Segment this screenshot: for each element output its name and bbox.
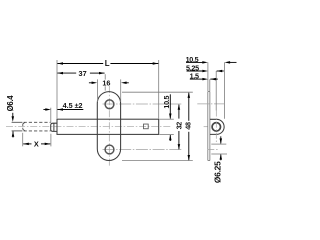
arrow 48 down (188, 155, 191, 161)
side view barrel vertical centerline (215, 111, 217, 144)
svg-text:10.5: 10.5 (162, 96, 171, 109)
side view horizontal centerline stub (204, 126, 208, 128)
dimension Dia6.4 lines (12, 113, 14, 117)
arrow L right (153, 62, 159, 65)
arrow X left (23, 143, 29, 146)
dimension 1.5 underline (190, 78, 203, 80)
svg-text:X: X (34, 140, 39, 149)
arrow L left (57, 62, 63, 65)
arrow dia6.25 down (220, 138, 223, 144)
centerline bottom hole (103, 149, 183, 151)
arrow 16 right (121, 82, 127, 85)
svg-text:Ø6.4: Ø6.4 (6, 95, 15, 112)
body housing front view (57, 119, 159, 134)
extension line barrel axis 5.25 (215, 71, 217, 111)
mounting plate front view (97, 92, 120, 161)
svg-text:48: 48 (184, 122, 193, 130)
extension line 37 right (104, 74, 106, 79)
arrow 37 left (57, 72, 63, 75)
arrow 32 down (178, 144, 181, 150)
side view top hole centerline (197, 103, 224, 105)
arrow 32 up (178, 104, 181, 110)
svg-text:32: 32 (174, 122, 183, 130)
extension line body rear end (158, 60, 160, 118)
extension line side plate right face (209, 79, 211, 91)
svg-text:37: 37 (79, 69, 87, 78)
bottom mounting hole (105, 145, 114, 154)
arrow 10.5mid down (169, 114, 172, 120)
svg-text:1.5: 1.5 (190, 72, 199, 81)
svg-text:Ø6.25: Ø6.25 (213, 161, 223, 183)
arrow 48 up (188, 92, 191, 98)
svg-text:L: L (105, 59, 110, 68)
centerline main axis front view (6, 125, 172, 127)
hidden pin extended bottom edge (12, 130, 23, 132)
hidden pin nose min position (23, 122, 25, 131)
arrow 1.5 left tip (202, 78, 208, 81)
arrow 5.25 left tip (202, 70, 208, 73)
pin tip retracted (51, 123, 57, 131)
arrow 10.5tr right tip (225, 61, 231, 64)
extension line body top right (160, 118, 174, 120)
arrow 10.5tr left tip (202, 61, 208, 64)
extension line body bottom right (160, 133, 174, 135)
arrow 1.5 right tip (210, 78, 216, 81)
arrow 10.5mid up (169, 135, 172, 141)
centerline top hole (103, 103, 183, 105)
extension line plate bottom 48 (122, 160, 193, 162)
extension line plate right (120, 79, 122, 102)
extension line plate left (97, 79, 99, 102)
dimension 4.5 underline and tail (57, 109, 83, 111)
extension line side plate left face (207, 62, 209, 91)
extension line bore top (211, 143, 226, 145)
dimension 10.5 mid vertical (169, 94, 171, 118)
dimension X line (23, 143, 31, 145)
arrow dia6.25 up (220, 154, 223, 160)
arrow 16 left (92, 82, 98, 85)
centerline plate vertical (108, 86, 110, 166)
arrow 37 right (99, 72, 105, 75)
arrow dia6.4 down (12, 116, 15, 122)
arrow X right (45, 143, 51, 146)
extension line pin tip X right (50, 134, 52, 147)
dimension 48 vertical (188, 93, 190, 121)
dimension 37 line (57, 72, 76, 74)
arrow dia6.4 up (12, 131, 15, 137)
side view bottom hole centerline (207, 149, 218, 151)
extension line bore bottom (211, 153, 227, 155)
dimension 10.5 top right underline (186, 61, 203, 63)
dimension 5.25 underline (187, 70, 203, 72)
svg-text:4.5 ±2: 4.5 ±2 (63, 101, 83, 110)
extension line pin nose X (22, 133, 24, 147)
top mounting hole (105, 100, 114, 109)
side view bore circle (212, 123, 220, 131)
dimension L line (57, 63, 103, 65)
extension line barrel end 10.5 (223, 62, 225, 118)
extension line body front face (56, 60, 58, 118)
side view barrel (210, 119, 224, 134)
side view plate (208, 92, 210, 161)
svg-text:16: 16 (102, 79, 110, 88)
arrow 5.25 right tip (217, 70, 223, 73)
extension line pin tip face (50, 108, 52, 123)
extension line plate top 48 (122, 91, 193, 93)
hidden pin extended top edge (12, 121, 23, 123)
arrow 4.5 right (57, 108, 63, 111)
dimension 32 vertical (178, 105, 180, 119)
dimension Dia6.25 vertical (220, 136, 222, 143)
arrow 4.5 left (45, 108, 51, 111)
dimension 16 tails (89, 82, 93, 84)
square hole in body (144, 124, 149, 129)
